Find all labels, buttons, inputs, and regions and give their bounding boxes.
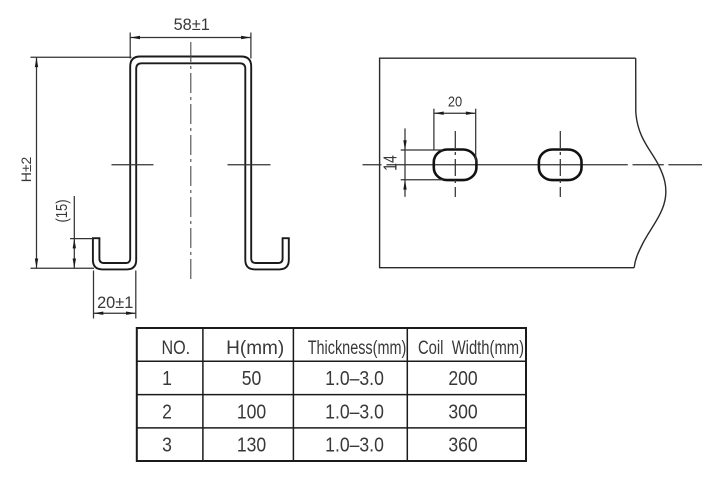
svg-text:14: 14 bbox=[381, 155, 401, 171]
svg-text:2: 2 bbox=[162, 400, 172, 422]
horizontal centerline of plate bbox=[363, 164, 703, 166]
dimension 14 line (plate) bbox=[404, 128, 406, 196]
svg-text:Thickness(mm): Thickness(mm) bbox=[308, 337, 407, 358]
svg-text:100: 100 bbox=[237, 400, 266, 422]
left slotted hole bbox=[434, 150, 477, 181]
plate wavy break edge bbox=[634, 58, 666, 268]
break mark on left web bbox=[112, 164, 154, 166]
svg-text:3: 3 bbox=[162, 434, 172, 456]
svg-text:360: 360 bbox=[448, 434, 477, 456]
left hole vertical centerline bbox=[454, 131, 456, 197]
svg-text:Coil Width(mm): Coil Width(mm) bbox=[418, 337, 524, 358]
dimension 14 extension lines (plate) bbox=[401, 149, 443, 151]
dimension 20±1 line bbox=[94, 312, 136, 314]
plate outline (top, left, bottom edges) bbox=[380, 58, 636, 268]
dimension 58±1 line bbox=[130, 37, 251, 39]
svg-text:H±2: H±2 bbox=[18, 157, 34, 183]
svg-text:300: 300 bbox=[448, 400, 477, 422]
svg-text:130: 130 bbox=[237, 434, 266, 456]
right slotted hole bbox=[539, 150, 582, 181]
dimension 20 line (plate) bbox=[434, 112, 476, 114]
dimension (15) line bbox=[73, 196, 75, 268]
hat channel profile outer surface line bbox=[93, 63, 289, 269]
vertical centerline of profile bbox=[190, 42, 192, 281]
dimension 20±1 extension lines bbox=[93, 271, 95, 319]
right hole vertical centerline bbox=[559, 131, 561, 197]
table outer border bbox=[137, 328, 526, 461]
svg-text:1: 1 bbox=[162, 367, 172, 389]
dimension 58±1 extension lines bbox=[129, 33, 131, 59]
table column lines bbox=[202, 328, 204, 461]
svg-text:(15): (15) bbox=[54, 199, 72, 222]
hat channel profile inner surface line bbox=[99, 57, 282, 264]
svg-text:1.0–3.0: 1.0–3.0 bbox=[325, 434, 384, 456]
svg-text:NO.: NO. bbox=[161, 337, 190, 359]
svg-text:1.0–3.0: 1.0–3.0 bbox=[325, 367, 384, 389]
svg-text:200: 200 bbox=[448, 367, 477, 389]
svg-text:20: 20 bbox=[448, 93, 463, 110]
left lip end cap bbox=[92, 237, 100, 239]
break mark on right web bbox=[228, 164, 271, 166]
dimension H±2 extension lines bbox=[31, 56, 132, 58]
svg-text:1.0–3.0: 1.0–3.0 bbox=[325, 400, 384, 422]
table row lines bbox=[137, 360, 526, 362]
dimension (15) extension line bbox=[70, 238, 93, 240]
dimension 20 extension lines (plate) bbox=[433, 109, 435, 150]
svg-text:20±1: 20±1 bbox=[97, 293, 133, 312]
dimension H±2 line bbox=[36, 57, 38, 268]
right lip end cap bbox=[282, 237, 290, 239]
svg-text:58±1: 58±1 bbox=[174, 15, 210, 34]
svg-text:50: 50 bbox=[242, 367, 262, 389]
svg-text:H(mm): H(mm) bbox=[226, 338, 284, 359]
